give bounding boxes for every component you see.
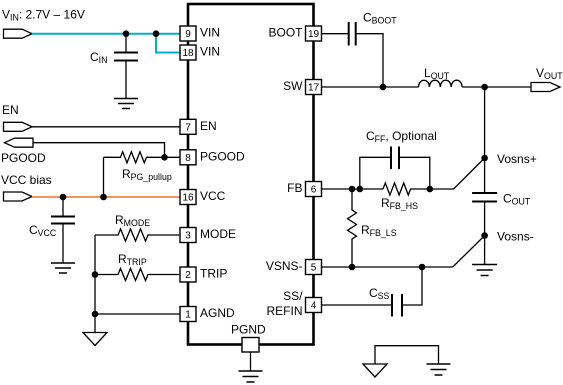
label CSS	[369, 286, 390, 301]
capacitor COUT	[472, 193, 497, 265]
svg-text:MODE: MODE	[200, 227, 236, 241]
power ground (net-tie)	[427, 364, 451, 375]
junction dot AGND	[92, 311, 99, 318]
capacitor CIN	[114, 34, 138, 99]
pin 8 name PGOOD	[200, 149, 245, 163]
pin 5 name VSNS-	[266, 259, 303, 273]
label CIN	[90, 50, 107, 65]
wire AGND pin 1	[95, 313, 180, 315]
wire RFB_HS to Vosns+ diagonal	[430, 158, 485, 189]
svg-text:VCC: VCC	[200, 189, 226, 203]
label LOUT	[424, 66, 450, 81]
resistor RFB_LS	[348, 189, 357, 267]
pin 9 name VIN	[200, 26, 220, 40]
ground below COUT	[472, 265, 497, 276]
label CFF, Optional	[366, 129, 437, 144]
label RTRIP	[118, 252, 147, 267]
svg-text:1: 1	[185, 310, 191, 321]
label RMODE	[115, 213, 150, 228]
pin 2 box	[180, 267, 196, 282]
svg-text:EN: EN	[2, 103, 19, 117]
svg-text:7: 7	[185, 122, 191, 133]
svg-text:REFIN: REFIN	[267, 304, 303, 318]
net-tie wire AGND to PGND	[375, 346, 439, 364]
svg-text:TRIP: TRIP	[200, 267, 227, 281]
resistor RPG_pullup	[104, 152, 165, 163]
svg-text:SS/: SS/	[283, 289, 303, 303]
resistor RMODE	[95, 229, 180, 241]
label VCC bias	[1, 173, 52, 187]
svg-text:FB: FB	[287, 181, 302, 195]
svg-text:4: 4	[311, 301, 317, 312]
pin 5 box	[306, 260, 322, 275]
junction dot VSNS-/CSS	[419, 264, 426, 271]
junction dot RTRIP	[92, 271, 99, 278]
label Vosns-	[497, 230, 534, 244]
pin 19 box	[306, 26, 322, 41]
svg-text:SW: SW	[283, 79, 303, 93]
wire RPG_pullup to VCC rail	[103, 157, 105, 197]
svg-text:EN: EN	[200, 119, 217, 133]
wire VIN branch to pin 18 (cyan)	[156, 34, 180, 53]
svg-text:PGOOD: PGOOD	[1, 151, 46, 165]
wire SS/REFIN pin 4 to CSS	[322, 304, 392, 306]
input connector EN	[4, 122, 33, 131]
junction dot RFB_HS/CFF right	[427, 186, 434, 193]
junction dot VOUT node	[481, 84, 488, 91]
wire EN to pin 7	[32, 126, 180, 128]
pin 17 box	[306, 80, 322, 95]
svg-text:VIN: VIN	[200, 45, 220, 59]
inductor LOUT	[419, 80, 463, 87]
resistor RTRIP	[95, 269, 180, 281]
label PGOOD	[1, 151, 46, 165]
junction dot pin8/resistor	[161, 154, 168, 161]
capacitor CFF branch	[360, 147, 430, 190]
pin 17 name SW	[283, 79, 303, 93]
pin 4 name SS/REFIN	[267, 289, 304, 318]
capacitor CVCC	[51, 197, 75, 263]
label VOUT	[536, 66, 563, 81]
label CVCC	[29, 223, 57, 238]
label PGND	[231, 323, 266, 337]
svg-text:3: 3	[185, 231, 191, 242]
input connector VIN	[4, 29, 33, 38]
junction dot FB/CFF	[357, 186, 364, 193]
pin 3 box	[180, 228, 196, 243]
wire SW pin 17 to LOUT	[322, 86, 419, 88]
junction dot RPG_pullup/VCC	[100, 194, 107, 201]
pin 18 name VIN	[200, 45, 220, 59]
wire RMODE/RTRIP/AGND vertical	[94, 235, 96, 333]
svg-text:16: 16	[182, 193, 194, 204]
pin 3 name MODE	[200, 227, 236, 241]
label RPG_pullup	[122, 167, 172, 182]
pin 2 name TRIP	[200, 267, 227, 281]
junction dot VIN branch	[153, 30, 160, 37]
label CBOOT	[363, 11, 397, 26]
svg-text:BOOT: BOOT	[268, 26, 303, 40]
label COUT	[503, 192, 531, 207]
wire BOOT pin 19 to CBOOT	[322, 33, 349, 35]
analog ground triangle (net-tie)	[363, 364, 387, 377]
junction dot FB/RFB_LS	[349, 186, 356, 193]
svg-text:PGOOD: PGOOD	[200, 149, 245, 163]
pin 7 box	[180, 119, 196, 134]
svg-text:2: 2	[185, 270, 191, 281]
label VIN: 2.7V - 16V	[2, 8, 85, 23]
svg-text:AGND: AGND	[200, 306, 235, 320]
pin 16 name VCC	[200, 189, 226, 203]
svg-text:PGND: PGND	[231, 323, 266, 337]
junction dot Vosns-	[481, 232, 488, 239]
input connector VCC	[4, 192, 33, 201]
svg-text:6: 6	[311, 185, 317, 196]
resistor RFB_HS	[383, 183, 430, 195]
pin 1 name AGND	[200, 306, 235, 320]
svg-text:19: 19	[308, 29, 320, 40]
wire CBOOT to SW node	[357, 34, 384, 87]
svg-text:17: 17	[308, 83, 320, 94]
svg-text:Vosns-: Vosns-	[497, 230, 534, 244]
junction dot Vosns+	[481, 155, 488, 162]
label RFB_LS	[361, 223, 397, 238]
pin 16 box	[180, 190, 196, 205]
junction dot VIN/CIN	[123, 30, 130, 37]
wire VOUT node down to COUT	[484, 87, 486, 193]
svg-text:VIN: VIN	[200, 26, 220, 40]
svg-text:Vosns+: Vosns+	[497, 152, 537, 166]
label RFB_HS	[381, 196, 418, 211]
pin 6 name FB	[287, 181, 302, 195]
wire PGOOD to pin 8	[33, 143, 180, 158]
wire LOUT to VOUT	[462, 86, 531, 88]
wire VCC bias to pin 16 (orange)	[32, 196, 180, 198]
capacitor CBOOT	[349, 22, 356, 46]
svg-text:9: 9	[185, 29, 191, 40]
junction dot CVCC	[60, 194, 67, 201]
wire VSNS- pin 5	[322, 266, 453, 268]
ground below CIN	[114, 99, 138, 109]
ground below CVCC	[51, 263, 75, 273]
svg-text:VCC bias: VCC bias	[1, 173, 52, 187]
svg-text:18: 18	[182, 48, 194, 59]
pin 19 name BOOT	[268, 26, 303, 40]
pin PGND box	[242, 338, 259, 353]
pin 6 box	[306, 182, 322, 197]
pin 9 box	[180, 26, 196, 41]
svg-text:5: 5	[311, 263, 317, 274]
pin 7 name EN	[200, 119, 217, 133]
capacitor CSS	[392, 267, 422, 317]
output connector VOUT	[531, 83, 560, 92]
wire VIN input to pin 9 (cyan)	[32, 33, 180, 35]
wire VSNS- to Vosns- diagonal	[453, 236, 485, 267]
pin 18 box	[180, 45, 196, 60]
svg-text:8: 8	[185, 153, 191, 164]
junction dot SW/CBOOT	[380, 84, 387, 91]
pin 4 box	[306, 298, 322, 313]
pin 1 box	[180, 307, 196, 322]
IC U1 body outline	[188, 4, 314, 345]
label EN	[2, 103, 19, 117]
label Vosns+	[497, 152, 537, 166]
pin 8 box	[180, 150, 196, 165]
ground below PGND	[239, 352, 263, 382]
junction dot VSNS-/RFB_LS	[349, 264, 356, 271]
output connector PGOOD	[5, 138, 34, 147]
svg-text:VSNS-: VSNS-	[266, 259, 303, 273]
wire FB pin 6	[322, 188, 384, 190]
analog ground triangle below AGND	[83, 333, 107, 346]
